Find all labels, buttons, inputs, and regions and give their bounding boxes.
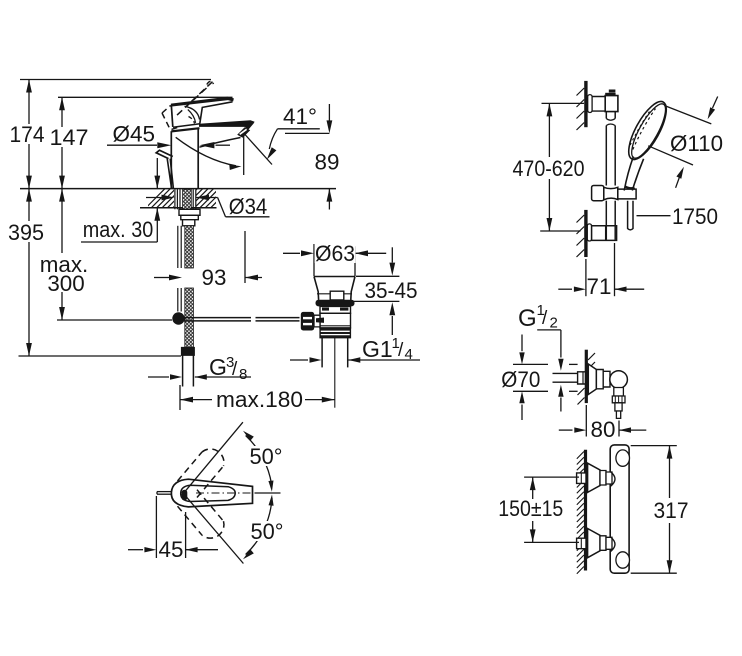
shower rail top bracket xyxy=(588,90,618,113)
svg-text:Ø110: Ø110 xyxy=(670,131,723,156)
handshower head xyxy=(622,96,674,190)
basin mixer lever handle xyxy=(171,97,234,127)
dimension diameter 70 xyxy=(501,335,577,421)
svg-text:/: / xyxy=(398,340,404,361)
thermostat upper wall union xyxy=(577,463,615,492)
lever top view solid outline xyxy=(171,479,252,507)
label G1 1/4 xyxy=(290,335,420,363)
dimension 71 horizontal xyxy=(558,243,644,299)
extension line top of raised lever (174 ref) xyxy=(20,79,211,81)
svg-text:470-620: 470-620 xyxy=(513,156,585,181)
label diameter 34 with leader xyxy=(146,194,270,219)
basin mixer spout with aerator xyxy=(199,120,255,147)
50 degree swing annotation xyxy=(182,422,285,563)
dimension 80 horizontal xyxy=(559,405,647,442)
counter deck with hatching xyxy=(20,189,336,208)
mounting shank and nut below deck xyxy=(175,189,200,226)
svg-text:93: 93 xyxy=(202,265,227,290)
wall with G1/2 supply connection xyxy=(553,350,596,405)
thermostat lower wall union xyxy=(577,529,615,558)
waste locknut and tailpipe xyxy=(320,328,351,408)
svg-text:80: 80 xyxy=(591,417,616,442)
svg-text:50°: 50° xyxy=(250,444,283,469)
svg-text:317: 317 xyxy=(654,498,689,523)
svg-text:50°: 50° xyxy=(251,519,284,544)
handshower slider holder xyxy=(592,186,637,201)
basin mixer body column xyxy=(171,124,200,189)
svg-text:/: / xyxy=(542,308,548,329)
svg-text:395: 395 xyxy=(8,220,44,245)
label 1750 hose length xyxy=(637,204,719,229)
dimension max.180 horizontal xyxy=(180,385,335,412)
svg-text:147: 147 xyxy=(50,125,89,150)
dashed lever raised position xyxy=(162,81,214,129)
svg-text:/: / xyxy=(232,359,238,380)
svg-text:G: G xyxy=(209,354,227,380)
thermostat mixer body xyxy=(610,445,629,573)
pop-up linkage rod with ball joint xyxy=(57,312,300,324)
lever pivot pin and centerline xyxy=(157,492,281,495)
svg-text:Ø45: Ø45 xyxy=(113,122,156,147)
svg-text:8: 8 xyxy=(239,366,247,383)
svg-text:max.180: max.180 xyxy=(216,387,303,412)
dimension 35-45 vertical xyxy=(352,247,418,335)
dimension max.300 vertical xyxy=(40,189,89,320)
svg-text:41°: 41° xyxy=(283,104,317,129)
svg-text:2: 2 xyxy=(550,315,558,332)
svg-text:300: 300 xyxy=(47,271,84,296)
svg-text:89: 89 xyxy=(315,150,340,175)
svg-text:45: 45 xyxy=(159,537,184,562)
dimension diameter 63 xyxy=(283,241,386,276)
label G 1/2 with arrows xyxy=(518,302,564,412)
svg-text:150±15: 150±15 xyxy=(498,496,563,521)
dimension 147 vertical xyxy=(48,97,91,188)
handshower hose stub xyxy=(628,201,633,230)
svg-text:Ø70: Ø70 xyxy=(501,367,540,392)
svg-text:G1: G1 xyxy=(362,336,393,362)
wall section top bracket xyxy=(577,81,586,130)
shower glide rail xyxy=(606,112,615,226)
hose end connector G3/8 tail xyxy=(182,348,195,387)
svg-text:4: 4 xyxy=(405,346,413,363)
svg-text:71: 71 xyxy=(587,274,612,299)
shower outlet union side view xyxy=(588,364,627,418)
svg-text:Ø34: Ø34 xyxy=(229,194,268,219)
wall section thermostat xyxy=(577,450,586,574)
svg-text:174: 174 xyxy=(10,122,45,147)
wall section and bottom bracket xyxy=(577,210,617,257)
pop-up pull knob xyxy=(156,150,173,188)
dimension 45 horizontal xyxy=(128,496,218,562)
dimension 89 vertical xyxy=(285,104,339,210)
svg-text:G: G xyxy=(518,305,537,332)
svg-text:Ø63: Ø63 xyxy=(315,241,355,266)
dimension 470-620 vertical xyxy=(512,103,585,231)
flexible supply hose and pop-up rod xyxy=(178,226,194,348)
svg-text:35-45: 35-45 xyxy=(365,278,418,303)
dimension 150 plus-minus 15 xyxy=(498,477,579,542)
dimension diameter 110 xyxy=(648,97,723,188)
pop-up waste body with pivot rod nut xyxy=(301,306,351,330)
extension line hose end (395 ref) xyxy=(19,355,182,357)
41 degree spray angle annotation xyxy=(176,104,320,175)
label G 3/8 xyxy=(148,354,251,383)
extension line top of lever (147 ref) xyxy=(58,96,233,98)
dimension 93 horizontal xyxy=(154,231,262,290)
dimension diameter 45 xyxy=(107,122,230,149)
dashed lever swung positions top view xyxy=(178,449,224,538)
dimension 174 vertical xyxy=(9,80,47,189)
svg-text:1750: 1750 xyxy=(672,204,718,229)
label max. 30 with leader xyxy=(81,158,160,242)
dimension 317 vertical xyxy=(631,446,690,574)
svg-text:max. 30: max. 30 xyxy=(83,217,154,242)
pop-up waste upper flange xyxy=(314,277,355,307)
dimension 395 vertical xyxy=(7,189,45,356)
